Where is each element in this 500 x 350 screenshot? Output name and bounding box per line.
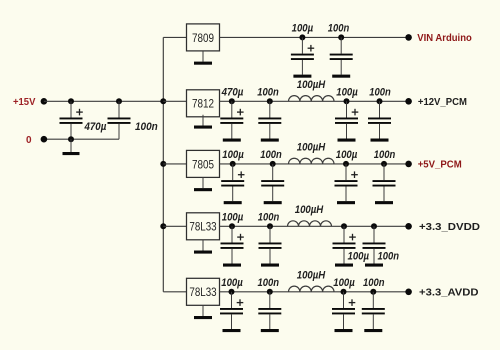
svg-text:100µH: 100µH xyxy=(297,79,326,91)
capacitor C19 100µ xyxy=(332,292,355,332)
svg-text:78L33: 78L33 xyxy=(189,220,216,234)
regulator U1 7809 xyxy=(187,24,220,51)
junction C16 top xyxy=(371,223,377,229)
junction C11 top xyxy=(343,161,349,167)
inductor L3 100µH xyxy=(288,221,332,226)
svg-text:+15V: +15V xyxy=(13,97,36,108)
capacitor C15 100µ xyxy=(333,226,356,266)
wire bus to U3 xyxy=(163,163,186,165)
junction C4 top xyxy=(338,34,344,40)
wire U3 output xyxy=(220,163,409,165)
svg-text:+12V_PCM: +12V_PCM xyxy=(418,97,467,108)
junction C13 top xyxy=(229,223,235,229)
junction C10 top xyxy=(270,161,276,167)
regulator U3 7805 xyxy=(187,150,220,177)
svg-text:+5V_PCM: +5V_PCM xyxy=(418,160,462,171)
wire bus to U5 xyxy=(163,291,186,293)
junction C6 top xyxy=(267,98,273,104)
svg-text:100n: 100n xyxy=(374,149,396,161)
terminal +12V_PCM xyxy=(405,98,412,105)
svg-text:470µ: 470µ xyxy=(84,121,107,133)
junction C8 top xyxy=(377,98,383,104)
capacitor C20 100n xyxy=(362,292,385,332)
svg-text:100n: 100n xyxy=(258,211,280,223)
capacitor C17 100µ xyxy=(220,292,243,332)
svg-text:100n: 100n xyxy=(260,149,282,161)
svg-text:100µH: 100µH xyxy=(297,270,326,282)
junction C3 top xyxy=(299,34,305,40)
junction C12 top xyxy=(381,161,387,167)
inductor L2 100µH xyxy=(289,158,335,164)
svg-text:100µH: 100µH xyxy=(297,142,326,154)
svg-text:+3.3_AVDD: +3.3_AVDD xyxy=(419,287,479,298)
svg-text:100µ: 100µ xyxy=(336,86,358,98)
terminal 0 xyxy=(41,136,48,143)
inductor L1 100µH xyxy=(289,96,335,102)
junction bus row4 xyxy=(160,223,166,229)
capacitor C18 100n xyxy=(258,292,281,332)
ground under 7809 xyxy=(194,51,212,65)
svg-text:100µ: 100µ xyxy=(292,23,314,35)
capacitor C2 100n xyxy=(108,101,131,139)
ground under 7805 xyxy=(194,177,212,191)
junction C5 top xyxy=(229,98,235,104)
svg-text:100µ: 100µ xyxy=(222,149,244,161)
regulator U5 78L33 xyxy=(187,278,220,305)
svg-text:VIN Arduino: VIN Arduino xyxy=(417,33,472,44)
svg-text:100n: 100n xyxy=(328,23,350,35)
wire bus to U2 xyxy=(163,100,186,102)
regulator U2 7812 xyxy=(187,90,220,117)
junction bus row2 xyxy=(160,98,166,104)
junction C7 top xyxy=(344,98,350,104)
junction C20 top xyxy=(370,289,376,295)
capacitor C14 100n xyxy=(259,226,282,266)
capacitor C11 100µ xyxy=(335,164,358,204)
capacitor C9 100µ xyxy=(221,164,244,204)
capacitor C7 100µ xyxy=(335,101,358,141)
capacitor C5 470µ xyxy=(220,101,243,141)
regulator U4 78L33 xyxy=(187,213,220,240)
terminal +3.3_DVDD xyxy=(405,223,412,230)
junction C19 top xyxy=(341,289,347,295)
capacitor C16 100n xyxy=(363,226,386,266)
terminal +3.3_AVDD xyxy=(405,289,412,296)
junction bus row3 xyxy=(160,161,166,167)
svg-text:100n: 100n xyxy=(135,121,158,133)
svg-text:100n: 100n xyxy=(378,250,400,262)
svg-text:7805: 7805 xyxy=(192,157,214,171)
svg-text:0: 0 xyxy=(26,135,32,146)
wire +15V to bus xyxy=(44,100,163,102)
svg-text:100µ: 100µ xyxy=(348,250,370,262)
terminal +5V_PCM xyxy=(405,161,412,168)
svg-text:100n: 100n xyxy=(369,86,391,98)
junction C14 top xyxy=(267,223,273,229)
inductor L4 100µH xyxy=(289,286,335,292)
terminal +15V xyxy=(41,98,48,105)
svg-text:100n: 100n xyxy=(363,277,385,289)
svg-text:78L33: 78L33 xyxy=(189,285,216,299)
junction C15 top xyxy=(341,223,347,229)
svg-text:100µ: 100µ xyxy=(221,277,243,289)
wire U4 output xyxy=(220,225,409,227)
terminal VIN Arduino xyxy=(405,34,412,41)
junction C18 top xyxy=(267,289,273,295)
capacitor C8 100n xyxy=(368,101,391,141)
svg-text:100µ: 100µ xyxy=(222,211,244,223)
svg-text:7809: 7809 xyxy=(192,31,214,45)
capacitor C6 100n xyxy=(258,101,281,141)
ground under 78L33 xyxy=(194,240,212,254)
wire 0 net xyxy=(44,138,119,140)
svg-text:100µH: 100µH xyxy=(295,204,324,216)
svg-text:100µ: 100µ xyxy=(336,149,358,161)
capacitor C3 100µ xyxy=(291,37,314,77)
wire U5 output xyxy=(220,291,409,293)
svg-text:7812: 7812 xyxy=(192,97,214,111)
ground under 78L33 xyxy=(194,305,212,319)
wire bus to U4 xyxy=(163,225,186,227)
ground under 7812 xyxy=(194,115,212,129)
wire U2 output xyxy=(220,100,409,102)
wire bus to U1 xyxy=(163,36,186,38)
capacitor C13 100µ xyxy=(221,226,244,266)
wire U1 output xyxy=(220,36,409,38)
capacitor C10 100n xyxy=(261,164,284,204)
svg-text:100n: 100n xyxy=(258,277,280,289)
svg-text:470µ: 470µ xyxy=(221,86,244,98)
svg-text:+3.3_DVDD: +3.3_DVDD xyxy=(419,222,480,233)
wire supply bus xyxy=(162,37,164,291)
junction C17 top xyxy=(229,289,235,295)
junction C9 top xyxy=(230,161,236,167)
ground input xyxy=(63,139,80,155)
junction C1 top xyxy=(68,98,74,104)
junction C2 top xyxy=(116,98,122,104)
capacitor C12 100n xyxy=(373,164,396,204)
capacitor C4 100n xyxy=(330,37,353,77)
junction 0 net xyxy=(68,136,74,142)
svg-text:100µ: 100µ xyxy=(333,277,355,289)
svg-text:100n: 100n xyxy=(257,86,279,98)
capacitor C1 470µ xyxy=(60,101,83,139)
